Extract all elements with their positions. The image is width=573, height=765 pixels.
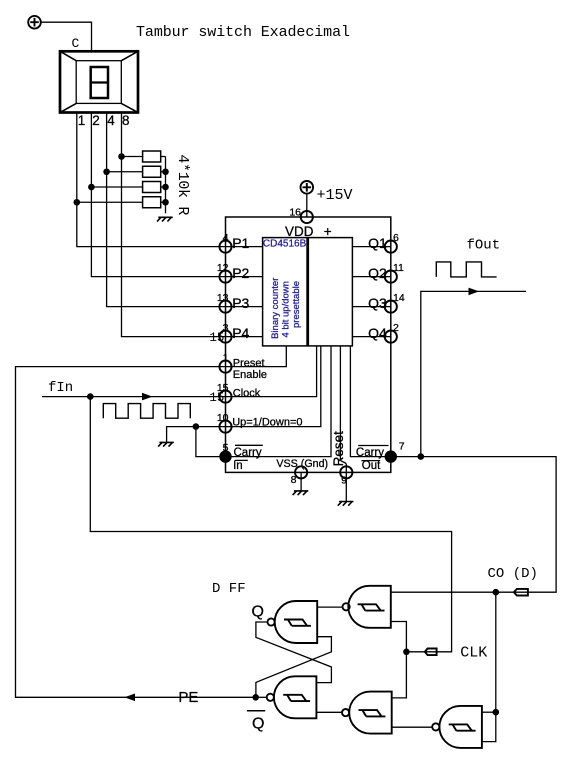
svg-text:VSS (Gnd): VSS (Gnd) bbox=[276, 458, 328, 470]
junction rail R2 bbox=[162, 168, 169, 175]
svg-text:4*10k R: 4*10k R bbox=[174, 154, 191, 215]
wire tap pin4 to resistor R2 bbox=[107, 171, 143, 173]
svg-text:Q2: Q2 bbox=[368, 265, 387, 281]
wire resistor outputs to common rail bbox=[161, 157, 166, 214]
svg-text:Binary counter: Binary counter bbox=[270, 278, 281, 339]
svg-text:PE: PE bbox=[178, 689, 198, 706]
wire switch pin2 to P2 bbox=[91, 113, 262, 277]
svg-text:CO (D): CO (D) bbox=[488, 566, 538, 582]
svg-text:VDD: VDD bbox=[285, 224, 314, 239]
svg-text:Carry: Carry bbox=[234, 447, 262, 459]
svg-text:1: 1 bbox=[223, 352, 229, 364]
svg-text:P1: P1 bbox=[232, 235, 249, 251]
wire switch pin8 to P4 bbox=[122, 113, 263, 337]
junction on pin4 wire bbox=[103, 168, 110, 175]
wire switch pin4 to P3 bbox=[107, 113, 263, 307]
ground (Up/Down) bbox=[158, 442, 174, 446]
ground (pin 9) bbox=[338, 502, 354, 506]
resistor R2 10k bbox=[143, 166, 161, 177]
svg-text:Clock: Clock bbox=[233, 387, 261, 399]
svg-text:Q1: Q1 bbox=[368, 235, 387, 251]
pin circle P3 bbox=[219, 301, 231, 313]
wire G5 output to G4 bottom input bbox=[392, 726, 433, 728]
nand gate G5 (inverter) bbox=[432, 706, 482, 748]
arrow fOut (right) bbox=[469, 288, 480, 296]
svg-text:Carry: Carry bbox=[356, 447, 384, 459]
svg-text:P2: P2 bbox=[232, 265, 249, 281]
wire G4 output to G3 bottom input bbox=[316, 711, 342, 713]
svg-text:14: 14 bbox=[393, 292, 405, 304]
wire Reset to pin 9 and ground bbox=[340, 346, 346, 502]
svg-text:10: 10 bbox=[217, 412, 229, 424]
svg-text:2: 2 bbox=[92, 113, 100, 128]
junction CLK node bbox=[403, 649, 410, 656]
ground (pin 8 VSS) bbox=[293, 491, 309, 495]
svg-text:+15V: +15V bbox=[317, 187, 353, 204]
svg-text:4 bit up/down: 4 bit up/down bbox=[281, 281, 292, 338]
junction rail R3 bbox=[162, 184, 169, 191]
wire switch pin1 to P1 bbox=[77, 113, 263, 247]
junction PE / G3 output bbox=[252, 694, 259, 701]
svg-text:CLK: CLK bbox=[460, 645, 487, 662]
pin labels P1-P4 bbox=[232, 235, 249, 341]
junction on pin8 wire bbox=[118, 153, 125, 160]
svg-text:Q: Q bbox=[252, 604, 264, 621]
nand gate G3 (latch bottom) bbox=[267, 676, 317, 718]
power terminal +15V bbox=[301, 181, 314, 194]
wire fIn to CLK of D FF bbox=[90, 397, 451, 652]
power terminal + (common C of thumbwheel switch) bbox=[28, 16, 41, 29]
waveform fIn bbox=[103, 404, 190, 419]
svg-text:presettable: presettable bbox=[291, 281, 302, 328]
junction rail R4 bbox=[162, 199, 169, 206]
svg-text:12: 12 bbox=[217, 262, 229, 274]
switch pin labels 1 2 4 8 bbox=[78, 113, 130, 128]
svg-text:16: 16 bbox=[289, 207, 301, 219]
arrow PE (left) bbox=[125, 694, 136, 702]
wire Q2 stub bbox=[352, 276, 390, 278]
pin numbers left side bbox=[217, 232, 229, 454]
pin circle Q3 bbox=[385, 301, 397, 313]
junction on pin2 wire bbox=[88, 184, 95, 191]
wire Q3 stub bbox=[352, 306, 390, 308]
wire Carry In bbox=[196, 346, 331, 457]
svg-text:+: + bbox=[324, 224, 332, 239]
pin numbers right side bbox=[393, 232, 405, 334]
svg-text:11: 11 bbox=[393, 262, 404, 274]
wire tap pin8 to resistor R1 bbox=[122, 156, 143, 158]
resistor R3 10k bbox=[143, 182, 161, 193]
wire G2 bottom input to CLK node and G4 top input bbox=[391, 622, 407, 698]
pin circle Q4 bbox=[385, 331, 397, 343]
wire inverter top input bbox=[482, 711, 496, 713]
svg-text:7: 7 bbox=[399, 441, 405, 453]
waveform fOut bbox=[436, 262, 496, 277]
wire PE feedback loop bbox=[16, 346, 287, 697]
nand gate G1 (latch top) bbox=[268, 601, 318, 643]
pin circle 8 (VSS) bbox=[295, 466, 307, 478]
ground (resistor rail) bbox=[157, 217, 173, 221]
junction CO (D) node bbox=[493, 589, 500, 596]
junction Up/Down to Carry In bbox=[193, 423, 200, 430]
svg-text:fOut: fOut bbox=[467, 238, 501, 254]
wire fOut branch bbox=[421, 291, 526, 456]
pin circle 9 (Reset) bbox=[340, 466, 352, 478]
svg-text:CD4516B: CD4516B bbox=[263, 239, 307, 250]
svg-text:P3: P3 bbox=[232, 295, 249, 311]
resistor R4 10k bbox=[143, 197, 161, 208]
svg-text:Out: Out bbox=[362, 460, 381, 472]
svg-text:Enable: Enable bbox=[233, 369, 267, 381]
wire G1 output cross to G3 input (Q) bbox=[256, 622, 332, 683]
junction inverter top input bbox=[493, 709, 500, 716]
svg-text:In: In bbox=[233, 460, 243, 472]
nand gate G4 (clocked Dbar input) bbox=[342, 692, 392, 734]
wire +15V to pin 16 bbox=[306, 194, 308, 217]
pin circle P1 bbox=[219, 241, 231, 253]
svg-text:Reset: Reset bbox=[331, 431, 346, 467]
svg-text:C: C bbox=[72, 36, 80, 51]
resistor R1 10k bbox=[143, 151, 161, 162]
pin circle Q2 bbox=[385, 271, 397, 283]
wire Q1 stub bbox=[352, 246, 390, 248]
thumbwheel switch S1 (hexadecimal) bbox=[60, 51, 138, 112]
nand gate G2 (clocked D input) bbox=[343, 586, 391, 628]
junction fOut branch bbox=[418, 453, 425, 460]
wire G3 output cross to G1 input (Qbar) bbox=[256, 637, 332, 698]
pin circle P2 bbox=[219, 271, 231, 283]
svg-text:13: 13 bbox=[217, 292, 229, 304]
pin 16 circle bbox=[301, 211, 313, 223]
wire fIn to Clock bbox=[42, 346, 317, 397]
svg-text:Q: Q bbox=[252, 715, 264, 732]
pin circle Clock bbox=[219, 391, 231, 403]
wire CO (D) down to inverter bbox=[482, 592, 496, 741]
wire Carry Out to right rail bbox=[350, 346, 556, 592]
wire G2 output to G1 top input bbox=[317, 606, 342, 608]
pin circle P4 bbox=[219, 331, 231, 343]
svg-text:4: 4 bbox=[223, 232, 229, 244]
pin circle Q1 bbox=[385, 241, 397, 253]
svg-text:Q4: Q4 bbox=[368, 325, 387, 341]
wire Q4 stub bbox=[352, 336, 390, 338]
pin circle Preset Enable bbox=[219, 361, 231, 373]
svg-text:8: 8 bbox=[122, 113, 130, 128]
wire tap pin1 to resistor R4 bbox=[77, 201, 143, 203]
svg-text:4: 4 bbox=[107, 113, 115, 128]
svg-text:Q3: Q3 bbox=[368, 295, 387, 311]
pin dot Carry Out (pin 7) bbox=[385, 450, 397, 462]
svg-text:2: 2 bbox=[393, 322, 399, 334]
connector tag CO (D) bbox=[514, 589, 528, 596]
wire tap pin2 to resistor R3 bbox=[91, 186, 142, 188]
svg-text:D FF: D FF bbox=[212, 581, 246, 597]
IC U1 inner divider bbox=[306, 238, 309, 346]
arrow fIn (right) bbox=[142, 393, 153, 401]
wire VSS stub bbox=[300, 472, 302, 491]
svg-text:Preset: Preset bbox=[233, 357, 265, 369]
junction fIn bbox=[87, 393, 94, 400]
pin labels Q1-Q4 bbox=[368, 235, 387, 341]
IC U1 inner block bbox=[263, 238, 353, 346]
svg-text:Tambur switch Exadecimal: Tambur switch Exadecimal bbox=[136, 24, 350, 41]
svg-text:15: 15 bbox=[209, 391, 224, 405]
svg-text:P4: P4 bbox=[232, 325, 249, 341]
connector tag CLK bbox=[425, 649, 437, 656]
wire from + terminal to switch common bbox=[41, 22, 92, 51]
junction on pin1 wire bbox=[74, 199, 81, 206]
svg-text:8: 8 bbox=[291, 474, 297, 486]
wire Up/Down to ground and into IC bbox=[167, 346, 321, 443]
svg-text:6: 6 bbox=[393, 232, 399, 244]
svg-text:1: 1 bbox=[78, 113, 86, 128]
wire G3 output to PE junction bbox=[256, 696, 267, 698]
svg-text:9: 9 bbox=[341, 474, 347, 486]
svg-text:15: 15 bbox=[209, 331, 224, 345]
svg-text:fIn: fIn bbox=[48, 380, 73, 396]
pin circle Up/Down bbox=[219, 421, 231, 433]
pin dot Carry In (pin 5) bbox=[219, 450, 231, 462]
IC U1 CD4516B outer body bbox=[226, 217, 391, 472]
